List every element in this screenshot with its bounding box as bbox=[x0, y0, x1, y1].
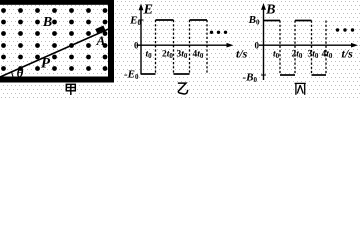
label A (line end) bbox=[96, 33, 106, 48]
field region frame bottom bar bbox=[0, 77, 114, 83]
caption yi (panel 2) bbox=[178, 83, 187, 94]
svg-text:B: B bbox=[42, 15, 52, 30]
angle arc theta bbox=[12, 71, 13, 76]
svg-text:2t0: 2t0 bbox=[162, 50, 173, 61]
E-t graph y-axis bbox=[139, 4, 144, 75]
svg-text:t0: t0 bbox=[273, 50, 280, 61]
label t/s (E-t axis) bbox=[236, 47, 248, 61]
E-t waveform dashed verticals bbox=[156, 20, 208, 74]
label B (axis) bbox=[265, 2, 275, 17]
svg-text:4t0: 4t0 bbox=[193, 50, 204, 61]
inclined line OA bbox=[0, 29, 109, 77]
E-t tick labels t0 2t0 3t0 4t0 bbox=[146, 50, 204, 61]
B-t graph y-axis bbox=[261, 3, 266, 80]
label B (field) bbox=[42, 15, 52, 30]
label E0 bbox=[129, 15, 141, 27]
velocity arrowhead on line bbox=[96, 28, 104, 32]
label B0 bbox=[248, 14, 260, 26]
svg-text:P: P bbox=[41, 56, 51, 72]
B-t waveform dashed verticals bbox=[280, 21, 326, 76]
svg-text:3t0: 3t0 bbox=[308, 50, 319, 61]
B-t ellipsis bbox=[336, 28, 354, 31]
svg-text:B: B bbox=[265, 2, 275, 17]
E0 tick on axis bbox=[139, 19, 144, 21]
label 0 (E-t origin) bbox=[134, 40, 139, 50]
-B0 tick on axis bbox=[261, 74, 266, 76]
label -B0 bbox=[243, 72, 258, 84]
E-t graph x-axis bbox=[137, 43, 234, 48]
caption bing (panel 3) bbox=[295, 83, 306, 94]
B-t waveform solid segments bbox=[264, 21, 327, 76]
B-t graph x-axis bbox=[259, 43, 358, 48]
label 0 (B-t origin) bbox=[255, 40, 260, 50]
svg-text:t/s: t/s bbox=[342, 47, 354, 61]
label theta bbox=[17, 65, 24, 80]
svg-text:0: 0 bbox=[255, 40, 260, 50]
label -E0 bbox=[124, 69, 139, 81]
svg-text:E: E bbox=[143, 2, 153, 17]
label E (axis) bbox=[143, 2, 153, 17]
svg-text:t/s: t/s bbox=[236, 47, 248, 61]
svg-text:4t0: 4t0 bbox=[322, 50, 333, 61]
field region frame top bar bbox=[0, 0, 114, 5]
magnetic field dots (B out of page) bbox=[1, 8, 107, 71]
label t/s (B-t axis) bbox=[342, 47, 354, 61]
svg-text:t0: t0 bbox=[146, 50, 153, 61]
label P (point on line) bbox=[41, 56, 51, 72]
B-t tick labels t0 2t0 3t0 4t0 bbox=[273, 50, 333, 61]
svg-text:θ: θ bbox=[17, 65, 24, 80]
field region frame right bar bbox=[108, 0, 114, 83]
svg-text:2t0: 2t0 bbox=[292, 50, 303, 61]
E-t waveform solid segments bbox=[141, 20, 207, 74]
svg-text:3t0: 3t0 bbox=[177, 50, 188, 61]
svg-text:0: 0 bbox=[134, 40, 139, 50]
E-t ellipsis bbox=[210, 31, 227, 34]
svg-text:A: A bbox=[96, 33, 106, 48]
caption jia (panel 1) bbox=[66, 84, 75, 95]
